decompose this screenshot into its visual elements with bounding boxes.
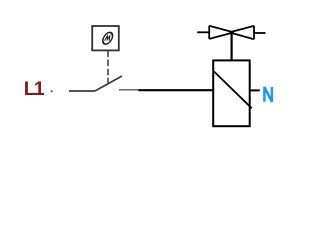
switch Q1 left terminal wire [69,90,95,92]
node L1 terminal dot [51,90,53,92]
valve V1 right stem stub [254,32,266,34]
wire valve body to N [250,89,260,91]
valve actuator diagonal [214,72,252,109]
motor actuator symbol (italic circled M) [101,32,114,44]
switch Q1 blade [95,76,122,91]
wire switch to valve body [139,89,215,91]
valve actuator stem [231,32,233,60]
valve actuator body (coil) rectangle [213,60,250,126]
valve V1 left stem stub [197,31,209,33]
valve V1 right triangle [229,26,254,39]
motor actuator box M1 [92,26,119,50]
valve V1 left triangle [209,26,234,39]
svg-text:L1: L1 [24,78,45,100]
net label N [264,87,272,102]
switch Q1 right terminal wire [119,89,139,91]
dashed mechanical link actuator-to-switch [107,51,109,85]
